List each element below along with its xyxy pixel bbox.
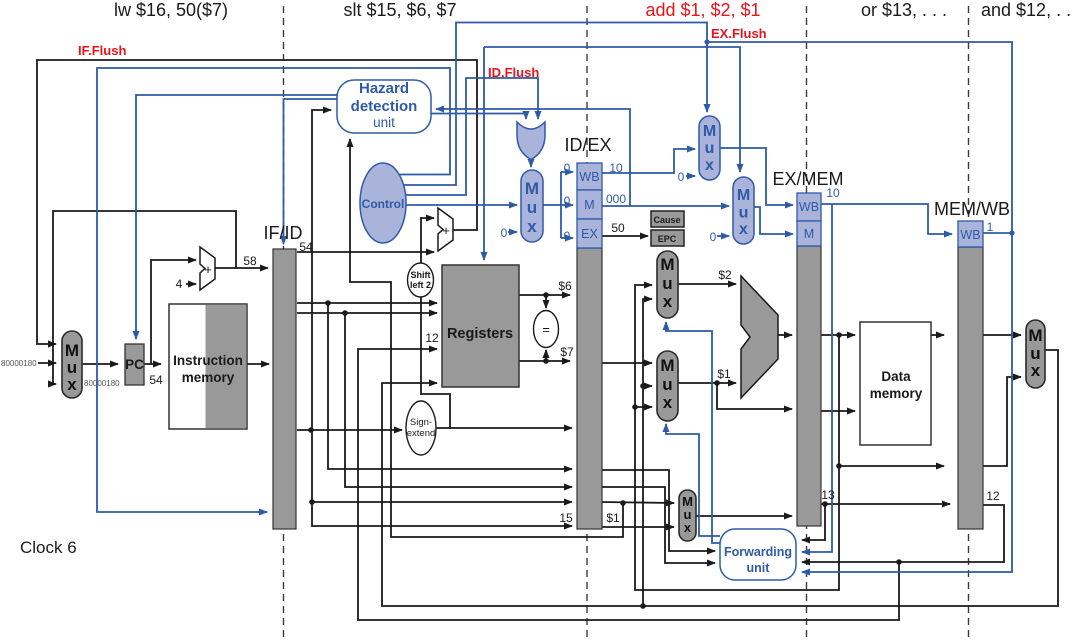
svg-text:EX: EX [581, 227, 598, 241]
svg-text:0: 0 [564, 229, 571, 243]
svg-text:+: + [442, 223, 450, 238]
svg-text:Clock 6: Clock 6 [20, 538, 77, 557]
svg-text:M: M [660, 356, 674, 375]
svg-text:13: 13 [821, 488, 835, 502]
svg-text:80000180: 80000180 [1, 359, 37, 368]
svg-text:000: 000 [606, 192, 626, 206]
svg-text:slt $15, $6, $7: slt $15, $6, $7 [343, 0, 456, 20]
svg-text:EPC: EPC [658, 234, 677, 244]
svg-text:M: M [584, 198, 594, 212]
svg-text:x: x [663, 292, 673, 311]
svg-text:Sign-: Sign- [410, 417, 432, 428]
svg-text:detection: detection [351, 98, 418, 115]
svg-text:ID.Flush: ID.Flush [488, 65, 539, 80]
svg-text:IF.Flush: IF.Flush [78, 43, 126, 58]
svg-text:WB: WB [579, 170, 599, 184]
svg-text:50: 50 [611, 221, 625, 235]
svg-text:u: u [705, 140, 715, 157]
svg-text:0: 0 [678, 170, 685, 184]
svg-text:54: 54 [149, 373, 163, 387]
svg-text:u: u [662, 375, 672, 394]
svg-text:x: x [684, 520, 692, 535]
svg-text:M: M [525, 179, 539, 198]
svg-text:and $12, . . .: and $12, . . . [981, 0, 1073, 20]
svg-text:0: 0 [501, 226, 508, 240]
svg-text:extend: extend [407, 428, 436, 439]
svg-text:12: 12 [425, 331, 439, 345]
svg-text:0: 0 [564, 161, 571, 175]
svg-text:unit: unit [373, 115, 395, 130]
svg-text:MEM/WB: MEM/WB [934, 199, 1010, 219]
svg-text:Forwarding: Forwarding [724, 545, 792, 559]
svg-text:+: + [204, 262, 212, 277]
svg-text:$6: $6 [558, 279, 572, 293]
svg-text:58: 58 [243, 254, 257, 268]
svg-text:Hazard: Hazard [359, 80, 409, 97]
svg-text:Data: Data [881, 369, 911, 384]
svg-text:EX.Flush: EX.Flush [711, 26, 767, 41]
svg-text:M: M [660, 255, 674, 274]
svg-text:WB: WB [960, 228, 980, 242]
svg-text:or $13, . . .: or $13, . . . [861, 0, 947, 20]
svg-text:$1: $1 [717, 367, 731, 381]
svg-text:Cause: Cause [653, 215, 680, 225]
svg-text:u: u [527, 198, 537, 217]
svg-text:Control: Control [362, 197, 405, 211]
svg-text:M: M [1028, 326, 1042, 345]
svg-text:unit: unit [747, 561, 771, 575]
svg-text:$7: $7 [560, 345, 574, 359]
svg-text:M: M [804, 227, 814, 241]
svg-text:IF/ID: IF/ID [264, 223, 303, 243]
svg-text:M: M [703, 123, 716, 140]
svg-text:10: 10 [826, 186, 840, 200]
svg-text:Registers: Registers [447, 326, 513, 342]
svg-text:x: x [705, 157, 714, 174]
svg-text:left 2: left 2 [410, 280, 431, 290]
svg-text:1: 1 [987, 220, 994, 234]
svg-text:x: x [663, 393, 673, 412]
svg-text:4: 4 [176, 277, 183, 291]
svg-text:memory: memory [870, 386, 923, 401]
svg-text:M: M [737, 187, 750, 204]
svg-text:x: x [67, 375, 77, 394]
svg-text:$1: $1 [606, 511, 620, 525]
svg-text:54: 54 [299, 240, 313, 254]
svg-text:80000180: 80000180 [84, 379, 120, 388]
svg-text:x: x [527, 217, 537, 236]
svg-text:Instruction: Instruction [173, 353, 243, 368]
svg-text:memory: memory [182, 370, 235, 385]
svg-text:PC: PC [125, 357, 144, 372]
svg-text:u: u [662, 274, 672, 293]
svg-text:add $1, $2, $1: add $1, $2, $1 [645, 0, 760, 20]
svg-text:0: 0 [710, 230, 717, 244]
svg-text:u: u [739, 205, 749, 222]
svg-text:15: 15 [559, 511, 573, 525]
svg-text:ID/EX: ID/EX [564, 135, 611, 155]
svg-text:WB: WB [799, 200, 819, 214]
svg-text:x: x [1031, 361, 1041, 380]
svg-text:12: 12 [986, 489, 1000, 503]
svg-text:x: x [739, 221, 748, 238]
svg-text:=: = [542, 322, 550, 337]
svg-text:Shift: Shift [411, 270, 431, 280]
svg-text:10: 10 [609, 161, 623, 175]
svg-text:0: 0 [564, 194, 571, 208]
svg-text:lw $16, 50($7): lw $16, 50($7) [114, 0, 228, 20]
svg-text:$2: $2 [718, 268, 732, 282]
